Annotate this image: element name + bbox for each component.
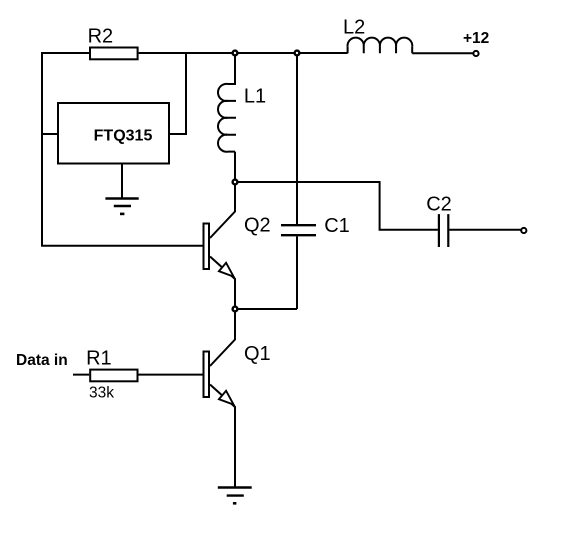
svg-text:33k: 33k	[89, 384, 114, 401]
svg-text:+12: +12	[463, 30, 489, 47]
svg-text:R2: R2	[88, 25, 114, 47]
svg-text:Data in: Data in	[16, 352, 68, 369]
svg-text:L2: L2	[343, 16, 365, 38]
svg-text:Q2: Q2	[244, 214, 271, 236]
svg-text:Q1: Q1	[244, 343, 271, 365]
svg-text:FTQ315: FTQ315	[94, 128, 153, 145]
svg-text:C2: C2	[426, 193, 452, 215]
svg-text:L1: L1	[244, 85, 266, 107]
svg-text:R1: R1	[86, 347, 112, 369]
svg-text:C1: C1	[324, 215, 350, 237]
